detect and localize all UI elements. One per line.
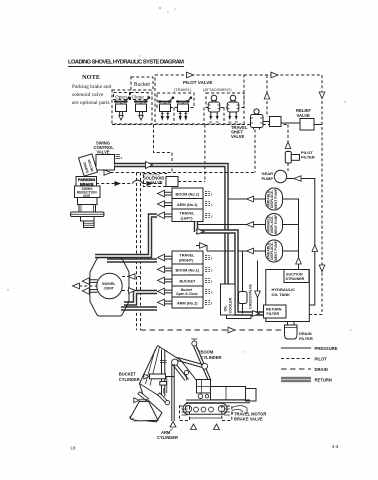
boom cylinder label [197,349,222,361]
pilot supply line top [187,72,325,314]
svg-text:SWIVEL: SWIVEL [102,282,116,286]
bucket cylinder label and arrow [119,372,149,383]
legend pilot [281,357,327,362]
check valve [239,251,253,314]
pilot filter [285,125,315,172]
bucket cylinder body [150,374,175,379]
svg-text:STRAINER: STRAINER [286,277,305,281]
swivel right ports [122,274,141,294]
svg-text:VALVE: VALVE [97,150,110,155]
swing pilot drain lines [96,130,255,331]
hydraulic oil tank [266,270,310,322]
variable displacement pump 3 [266,240,283,262]
drain filter [285,322,313,341]
bucket pilot valve dashed label box [131,77,153,90]
svg-text:x: x [211,280,213,284]
variable displacement pump 1 [266,188,283,210]
svg-text:ARM (No.1): ARM (No.1) [177,203,198,207]
svg-text:MENT PUMP: MENT PUMP [274,214,278,235]
svg-text:PILOT: PILOT [315,357,328,362]
svg-text:solenoid valve: solenoid valve [72,92,104,98]
svg-text:(RIGHT): (RIGHT) [179,258,194,262]
svg-text:Bucket: Bucket [134,82,150,88]
svg-text:OIL: OIL [224,305,228,312]
svg-text:are optional parts.: are optional parts. [72,100,111,106]
legend pressure [281,346,338,351]
svg-text:CHECKVALVE: CHECKVALVE [249,284,253,309]
return trunk B to filter [196,229,264,317]
svg-text:FILTER: FILTER [299,336,313,341]
Close label [131,93,149,101]
linkage joints [172,358,208,381]
control valve bank 2 [172,251,203,308]
svg-text:PARKING: PARKING [78,178,95,182]
control valve bank 1 [172,188,203,222]
travel motor brake valve boxes [180,406,232,421]
svg-text:x: x [211,291,213,295]
oil cooler [221,284,252,319]
bank2 lower lines to swivel [121,292,157,309]
svg-text:x: x [121,156,123,160]
svg-text:x: x [211,257,213,261]
variable displacement pump 2 [266,214,283,236]
svg-text:x: x [211,203,213,207]
svg-text:BOOM: BOOM [201,350,214,355]
bucket port arrow [134,398,147,403]
pump3 supply line [196,243,266,254]
svg-text:CYLINDER: CYLINDER [119,377,140,382]
swing motor [79,154,98,176]
svg-text:BUCKET: BUCKET [119,372,137,377]
legend drain [281,367,328,372]
svg-text:PILOT VALVE: PILOT VALVE [183,80,212,85]
swing control valve [94,141,123,171]
svg-text:x: x [211,214,213,218]
bank2 right port marks [205,256,213,306]
svg-text:FILTER: FILTER [267,312,280,316]
note text [72,74,112,106]
travel motor brake valve label [232,412,267,422]
svg-text:JOINT: JOINT [104,287,115,291]
bank1 right port marks [205,192,213,219]
pump suction manifold [283,199,302,270]
arm cylinder label [157,429,178,441]
svg-text:SUCTION: SUCTION [286,272,303,276]
travel-right return to swivel [107,258,157,263]
bank1 left port arrows [158,190,173,218]
svg-text:VALVE: VALVE [297,113,311,118]
bucket pilot valve (Open) [114,96,130,120]
valve block right of travel shift valve [263,117,300,127]
svg-text:x: x [211,193,213,197]
svg-text:Open: Open [115,94,127,100]
cab [197,380,211,394]
swivel joint [97,273,122,298]
pilot bus below valves [112,75,288,174]
svg-text:x: x [211,302,213,306]
suction strainer [284,270,309,283]
svg-text:x: x [211,269,213,273]
svg-text:(ATTACHMENT): (ATTACHMENT) [203,87,232,92]
bucket [129,400,162,422]
bucket pilot valve (Close) [134,96,150,120]
boom cylinder (vertical) [160,350,167,397]
swivel left ports [73,278,98,294]
svg-text:RETURN: RETURN [266,308,282,312]
svg-text:LOADING SHOVEL HYDRAULIC SYSTE: LOADING SHOVEL HYDRAULIC SYSTE DIAGRAM [68,60,184,66]
travel-left return to swivel [95,216,157,257]
relief valve [296,108,322,130]
svg-text:MENT PUMP: MENT PUMP [274,188,278,209]
title [68,60,184,67]
svg-text:PUMP: PUMP [262,176,274,181]
brake valve hoses [190,406,248,418]
attachment pilot valve right [227,95,239,122]
svg-text:TRAVEL: TRAVEL [180,212,196,216]
boom cylinder (diagonal) with rod-end [191,339,211,381]
svg-text:BUCKET: BUCKET [180,279,197,283]
swivel joint housing [90,258,129,317]
svg-text:PRESSURE: PRESSURE [315,346,338,351]
svg-text:4-3: 4-3 [332,444,339,449]
pump1 supply line [228,196,266,202]
svg-text:OIL TANK: OIL TANK [272,292,291,297]
svg-text:DRAIN: DRAIN [315,367,328,372]
bucket cylinder rod (tilted) [158,393,170,405]
attachment pilot valves dashed box [206,93,244,108]
svg-text:BOOM (No.1): BOOM (No.1) [176,269,200,273]
bucket link bar [138,392,149,401]
pump2 supply line [196,222,266,233]
svg-text:(LEFT): (LEFT) [181,216,194,220]
svg-text:VALVE: VALVE [150,180,163,185]
travel pilot valve right [176,96,192,120]
svg-text:Parking brake and: Parking brake and [72,84,112,90]
svg-text:CYLINDER: CYLINDER [201,355,222,360]
parking brake [76,177,97,187]
swing reduction unit [75,186,101,198]
machine body [186,387,256,403]
swing motor body [71,198,105,228]
return line swing valve to trunk [115,162,227,285]
ground arrows [170,422,220,430]
return filter [264,305,287,318]
svg-text:BRAKE VALVE: BRAKE VALVE [234,417,263,422]
svg-text:ARM (No.2): ARM (No.2) [177,302,198,306]
arm cylinder hose lines [172,364,174,421]
svg-text:CYLINDER: CYLINDER [157,435,178,440]
arm frame lines [162,376,167,394]
svg-text:VALVE: VALVE [231,134,245,139]
attachment pilot valve left [208,95,220,122]
svg-text:TRAVEL: TRAVEL [180,254,196,258]
travel pilot valve left [158,96,174,120]
Open label [114,93,130,101]
scan speckles (noise) [7,7,352,353]
svg-text:(TRAVEL): (TRAVEL) [174,87,192,92]
bank2 left port arrows [158,254,173,306]
svg-text:FILTER: FILTER [301,155,315,160]
svg-text:RETURN: RETURN [315,378,332,383]
return drop with arrow [255,261,261,314]
excavator sketch: boom A-frame [140,346,197,397]
solenoid valve [143,125,205,187]
svg-text:L8: L8 [71,446,76,451]
svg-text:NOTE: NOTE [82,74,100,81]
drain bus bottom [141,327,286,333]
gear pump [262,170,318,305]
crawler track [183,403,227,414]
svg-text:MENT PUMP: MENT PUMP [274,240,278,261]
pilot valve outer dashed box [155,75,244,124]
svg-text:Open & Close: Open & Close [176,292,198,296]
svg-text:Close: Close [132,94,145,100]
travel shift valve [231,109,263,139]
svg-text:BOOM (No.2): BOOM (No.2) [176,192,200,196]
travel pilot valves dashed box [157,93,194,108]
legend return [281,377,332,382]
svg-text:COOLER: COOLER [229,297,233,313]
bucket pilot valves dashed enclosure [112,90,152,124]
